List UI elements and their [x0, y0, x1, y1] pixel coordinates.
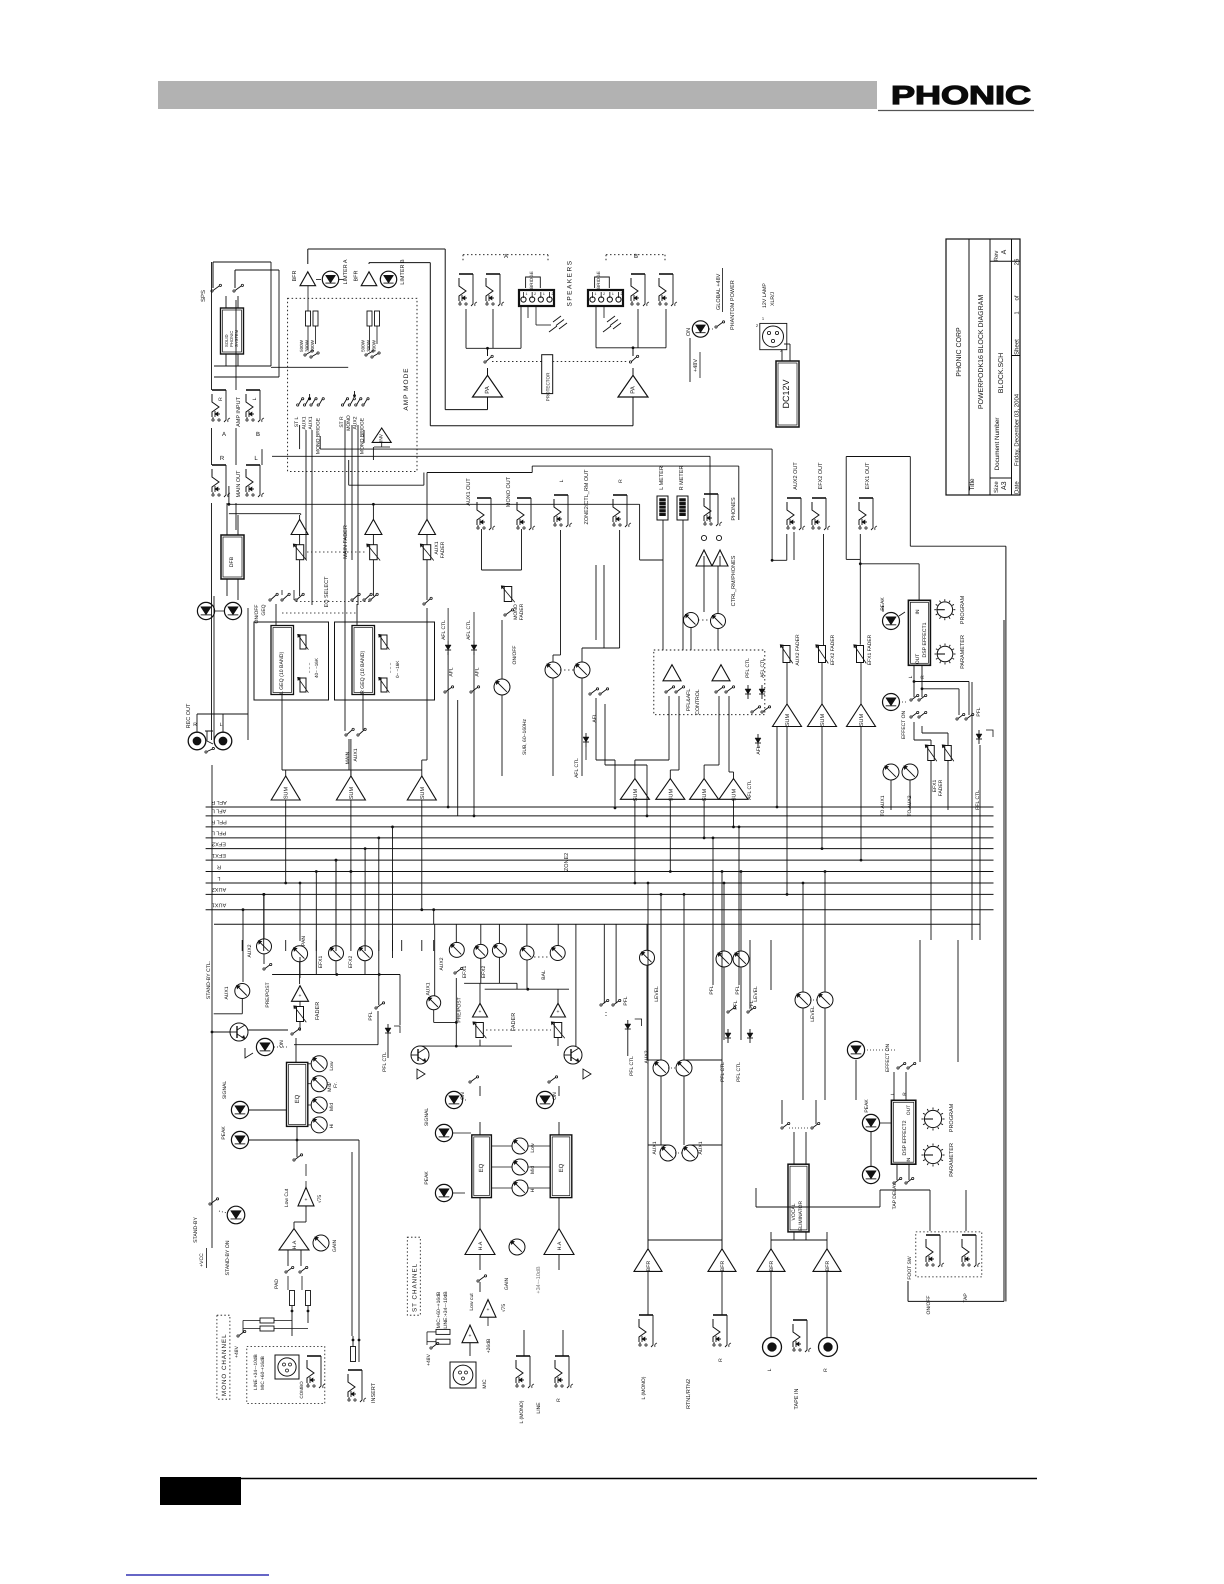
svg-text:PA: PA [484, 386, 491, 394]
svg-text:AMP INPUT: AMP INPUT [236, 396, 242, 426]
svg-text:EFFECT ON: EFFECT ON [885, 1043, 891, 1072]
svg-text:EQ SELECT: EQ SELECT [324, 576, 330, 608]
svg-text:L: L [217, 875, 220, 881]
svg-text:IN: IN [915, 609, 921, 614]
svg-text:SYSTEM: SYSTEM [234, 329, 239, 347]
svg-text:LEVEL: LEVEL [753, 986, 759, 1002]
svg-text:R: R [220, 455, 225, 462]
svg-text:PFL: PFL [368, 1011, 374, 1020]
svg-text:AFL: AFL [475, 667, 481, 676]
svg-text:PFL: PFL [733, 1000, 739, 1009]
svg-text:+48V: +48V [234, 1345, 240, 1357]
svg-text:MONO CHANNEL: MONO CHANNEL [221, 1333, 228, 1396]
svg-text:+VCC: +VCC [199, 1253, 205, 1267]
svg-text:L (MONO): L (MONO) [519, 1400, 525, 1423]
svg-text:EFX2: EFX2 [481, 966, 487, 979]
svg-text:√75: √75 [501, 1304, 507, 1313]
svg-text:ON/OFF: ON/OFF [926, 1296, 932, 1315]
svg-text:EFX1: EFX1 [212, 852, 226, 858]
svg-text:INV: INV [379, 433, 385, 442]
svg-text:GAIN: GAIN [504, 1278, 510, 1291]
svg-text:BRIDGE: BRIDGE [596, 271, 601, 289]
svg-text:H.A: H.A [557, 1241, 563, 1250]
svg-text:SUM: SUM [785, 713, 791, 726]
svg-text:SUM: SUM [349, 786, 355, 799]
svg-text:PFL CTL: PFL CTL [745, 658, 751, 678]
svg-text:BAL: BAL [541, 970, 547, 980]
svg-text:MAIN OUT: MAIN OUT [236, 470, 242, 498]
svg-text:1: 1 [543, 292, 545, 296]
svg-text:+: + [305, 1197, 308, 1203]
svg-text:PFL CTL: PFL CTL [736, 1062, 742, 1082]
svg-text:2: 2 [621, 292, 623, 296]
svg-text:R METER: R METER [679, 466, 685, 491]
svg-text:SUM: SUM [668, 788, 674, 801]
svg-text:SUM: SUM [633, 788, 639, 801]
svg-text:AUX2 OUT: AUX2 OUT [793, 462, 799, 490]
svg-text:AMP MODE: AMP MODE [403, 367, 410, 410]
svg-text:ON: ON [686, 328, 692, 336]
svg-text:MAIN: MAIN [345, 751, 351, 764]
svg-text:R: R [718, 1358, 724, 1362]
svg-text:ON/OFF: ON/OFF [512, 646, 518, 665]
svg-text:IN: IN [906, 1157, 912, 1162]
svg-text:1: 1 [595, 292, 597, 296]
svg-text:+26dB: +26dB [486, 1338, 492, 1353]
svg-text:AUX2: AUX2 [439, 957, 445, 970]
svg-text:A3: A3 [1001, 481, 1008, 490]
svg-text:AFL: AFL [756, 745, 762, 754]
svg-text:L: L [559, 479, 565, 482]
svg-text:MONO OUT: MONO OUT [506, 476, 512, 507]
svg-text:INSERT: INSERT [371, 1382, 377, 1403]
svg-text:PAD: PAD [274, 1279, 280, 1289]
svg-text:B: B [256, 431, 260, 438]
svg-text:AFL CTL: AFL CTL [760, 658, 766, 678]
svg-text:PFL L: PFL L [212, 830, 226, 836]
svg-text:L: L [890, 1092, 896, 1095]
svg-text:BFR: BFR [292, 270, 298, 281]
svg-text:√75: √75 [317, 1195, 323, 1204]
svg-text:A: A [222, 431, 226, 438]
svg-text:GAIN: GAIN [332, 1240, 338, 1253]
svg-text:ST R: ST R [339, 416, 345, 428]
svg-text:PEAK: PEAK [424, 1171, 430, 1185]
svg-text:BFR: BFR [646, 1261, 652, 1272]
svg-text:Hi: Hi [329, 1124, 335, 1129]
svg-text:ELIMINATOR: ELIMINATOR [798, 1201, 804, 1231]
svg-text:MIC:+60~+16dB: MIC:+60~+16dB [436, 1291, 442, 1328]
svg-text:SIGNAL: SIGNAL [424, 1108, 430, 1127]
svg-text:of: of [1014, 295, 1021, 300]
svg-text:AUX2 FADER: AUX2 FADER [795, 634, 801, 666]
svg-text:Rev: Rev [993, 251, 1000, 262]
svg-text:R: R [823, 1368, 829, 1372]
svg-text:500W: 500W [361, 339, 366, 352]
svg-text:L: L [252, 397, 258, 400]
svg-text:AUX1 OUT: AUX1 OUT [466, 478, 472, 506]
svg-text:TAP DELAY: TAP DELAY [892, 1182, 898, 1209]
svg-text:Date: Date [1014, 481, 1021, 494]
svg-text:L METER: L METER [659, 466, 665, 490]
svg-text:ST CHANNEL: ST CHANNEL [412, 1263, 419, 1312]
svg-text:DSP EFFECT1: DSP EFFECT1 [922, 622, 928, 657]
svg-text:XLR/J: XLR/J [770, 291, 776, 306]
svg-text:AFL CTL: AFL CTL [574, 758, 580, 778]
svg-text:2: 2 [603, 292, 605, 296]
svg-text:AFL CTL: AFL CTL [466, 620, 472, 640]
svg-text:TAPE IN: TAPE IN [794, 1388, 800, 1409]
svg-text:SPEAKERS: SPEAKERS [567, 259, 574, 306]
svg-text:LEVEL: LEVEL [654, 986, 660, 1002]
svg-text:300W: 300W [366, 339, 371, 352]
svg-text:R: R [556, 1398, 562, 1402]
svg-text:Mid: Mid [329, 1103, 335, 1111]
svg-text:PEAK: PEAK [221, 1126, 227, 1140]
svg-text:PFL CTL: PFL CTL [720, 1062, 726, 1082]
svg-text:AUX1: AUX1 [308, 416, 314, 429]
svg-text:Size: Size [993, 481, 1000, 493]
svg-text:AFL: AFL [449, 667, 455, 676]
svg-text:OUT: OUT [915, 654, 921, 665]
svg-text:H.A: H.A [478, 1241, 484, 1250]
svg-text:L GEQ (10 BAND): L GEQ (10 BAND) [279, 652, 285, 694]
svg-text:Low cut: Low cut [469, 1293, 475, 1311]
svg-text:L: L [908, 675, 914, 678]
svg-text:EFX1: EFX1 [318, 956, 324, 969]
svg-text:AUX1: AUX1 [302, 416, 308, 429]
svg-text:0~ ~16K: 0~ ~16K [395, 660, 400, 678]
svg-text:1: 1 [612, 292, 614, 296]
svg-text:GLOBAL +48V: GLOBAL +48V [716, 273, 722, 310]
svg-text:Friday, December 03, 2004: Friday, December 03, 2004 [1014, 393, 1021, 466]
svg-text:L: L [220, 722, 223, 728]
svg-text:LINE +34~-10dB: LINE +34~-10dB [253, 1354, 259, 1390]
svg-text:PARAMETER: PARAMETER [949, 1143, 955, 1177]
svg-text:BFR: BFR [720, 1261, 726, 1272]
svg-text:EFX2: EFX2 [212, 840, 226, 846]
svg-text:PHONES: PHONES [731, 497, 737, 521]
svg-text:LINE: LINE [536, 1402, 542, 1414]
svg-text:SUB, 60~160Hz: SUB, 60~160Hz [522, 719, 528, 755]
svg-text:PHONIC: PHONIC [891, 80, 1031, 110]
svg-text:EQ: EQ [478, 1163, 485, 1172]
svg-text:+: + [557, 1009, 560, 1015]
svg-text:AFL L: AFL L [212, 808, 226, 814]
svg-text:COMBO: COMBO [299, 1381, 304, 1399]
svg-text:FADER: FADER [315, 1002, 321, 1020]
svg-text:L: L [767, 1368, 773, 1371]
svg-text:R: R [920, 675, 926, 679]
svg-text:Low: Low [530, 1143, 536, 1153]
svg-text:PROTECTOR: PROTECTOR [546, 372, 551, 401]
svg-text:VOCAL: VOCAL [791, 1203, 797, 1220]
svg-text:AUX2: AUX2 [212, 886, 226, 892]
svg-text:MONO BRIDGE: MONO BRIDGE [360, 417, 366, 454]
svg-text:EFX2: EFX2 [348, 956, 354, 969]
svg-text:STAND-BY: STAND-BY [193, 1217, 199, 1243]
svg-text:DSP EFFECT2: DSP EFFECT2 [902, 1120, 908, 1155]
svg-text:CONTROL: CONTROL [695, 689, 701, 714]
svg-text:R: R [618, 479, 624, 483]
svg-text:STAND-BY CTL.: STAND-BY CTL. [206, 961, 212, 999]
svg-text:ON/OFF: ON/OFF [254, 605, 260, 624]
svg-text:H.A: H.A [292, 1240, 298, 1249]
svg-text:26: 26 [1014, 258, 1021, 265]
svg-text:A: A [1001, 249, 1008, 254]
svg-text:B: B [634, 253, 638, 260]
svg-text:500W: 500W [299, 339, 304, 352]
svg-text:+: + [469, 1333, 472, 1339]
svg-text:PA: PA [630, 386, 637, 394]
svg-text:CTRL_RM/PHONES: CTRL_RM/PHONES [731, 555, 737, 606]
svg-text:ST L: ST L [294, 417, 300, 428]
svg-text:PFL: PFL [735, 985, 741, 994]
svg-text:FADER: FADER [938, 779, 944, 796]
svg-text:FOOT SW: FOOT SW [907, 1256, 913, 1280]
svg-text:EFX2 OUT: EFX2 OUT [818, 462, 824, 490]
svg-text:FADER: FADER [511, 1013, 517, 1031]
svg-text:SUM: SUM [420, 786, 426, 799]
svg-text:PFL: PFL [976, 707, 982, 716]
svg-text:PFL R: PFL R [211, 819, 226, 825]
svg-text:PAN: PAN [301, 936, 307, 946]
svg-text:PHONIC CORP: PHONIC CORP [956, 327, 963, 377]
svg-text:Sheet: Sheet [1014, 339, 1021, 355]
svg-text:BLOCK.SCH: BLOCK.SCH [998, 353, 1005, 393]
svg-text:FADER: FADER [440, 541, 446, 558]
svg-text:LINE:+34~-10dB: LINE:+34~-10dB [443, 1291, 449, 1329]
svg-text:AUX1: AUX1 [212, 902, 226, 908]
svg-text:DC12V: DC12V [781, 379, 791, 408]
svg-text:1: 1 [526, 292, 528, 296]
svg-text:OUT: OUT [906, 1105, 912, 1115]
svg-text:R: R [902, 1092, 908, 1096]
svg-text:SPS: SPS [200, 290, 207, 302]
svg-text:AUX2: AUX2 [247, 944, 253, 957]
svg-text:SUM: SUM [820, 713, 826, 726]
svg-text:TO AUX1: TO AUX1 [880, 795, 886, 816]
svg-text:+34~-10dB: +34~-10dB [536, 1266, 542, 1294]
svg-text:PEAK: PEAK [864, 1099, 870, 1113]
svg-text:R: R [218, 397, 224, 401]
svg-text:RTN1/RTN2: RTN1/RTN2 [686, 1379, 692, 1409]
svg-text:+: + [487, 1307, 490, 1313]
svg-text:BRIDGE: BRIDGE [529, 271, 534, 289]
svg-text:EQ: EQ [294, 1094, 301, 1103]
svg-text:EQ: EQ [558, 1163, 565, 1172]
svg-text:BFR: BFR [825, 1261, 831, 1272]
svg-text:AUX1: AUX1 [353, 748, 359, 761]
svg-text:LIMTER A: LIMTER A [343, 259, 349, 284]
svg-text:PFL&AFL: PFL&AFL [686, 689, 692, 712]
svg-text:FADER: FADER [519, 603, 525, 620]
svg-text:MAIN FADER: MAIN FADER [343, 525, 349, 559]
svg-text:ZONE2: ZONE2 [564, 853, 570, 871]
svg-text:AFL R: AFL R [211, 799, 226, 805]
svg-text:Title: Title [969, 478, 976, 490]
svg-text:2: 2 [552, 292, 554, 296]
svg-text:MONO: MONO [346, 415, 352, 431]
svg-text:PFL CTL: PFL CTL [629, 1056, 635, 1076]
svg-text:+: + [299, 993, 302, 999]
svg-text:L (MONO): L (MONO) [641, 1376, 647, 1399]
svg-text:MIC: MIC [482, 1379, 488, 1389]
svg-text:BFR: BFR [769, 1261, 775, 1272]
svg-text:SUM: SUM [732, 788, 738, 801]
svg-text:Fr.: Fr. [333, 1082, 339, 1088]
svg-text:SUM: SUM [702, 788, 708, 801]
svg-text:12V LAMP: 12V LAMP [762, 283, 768, 308]
svg-text:PHANTOM POWER: PHANTOM POWER [730, 280, 736, 330]
svg-text:MIC +60-+16dB: MIC +60-+16dB [260, 1356, 266, 1390]
svg-text:300W: 300W [305, 339, 310, 352]
svg-text:REC OUT: REC OUT [186, 703, 192, 728]
svg-text:ON: ON [460, 1092, 466, 1100]
svg-text:BFR: BFR [354, 270, 360, 281]
svg-text:PRE/POST: PRE/POST [265, 982, 271, 1007]
svg-text:AUX1: AUX1 [698, 1141, 704, 1154]
svg-text:STAND-BY ON: STAND-BY ON [225, 1240, 231, 1275]
svg-text:DFB: DFB [229, 556, 235, 567]
svg-text:PRE/POST: PRE/POST [457, 997, 463, 1022]
svg-text:PROGRAM: PROGRAM [960, 595, 966, 624]
svg-text:LEVEL: LEVEL [810, 1006, 816, 1022]
svg-text:Document Number: Document Number [994, 418, 1001, 471]
svg-text:EFFECT ON: EFFECT ON [901, 710, 907, 739]
svg-text:SUM: SUM [859, 713, 865, 726]
svg-text:PARAMETER: PARAMETER [960, 635, 966, 669]
svg-text:GEQ: GEQ [261, 604, 267, 615]
svg-text:EFX2 FADER: EFX2 FADER [830, 634, 836, 665]
svg-text:Low: Low [329, 1061, 335, 1071]
svg-text:PROGRAM: PROGRAM [949, 1103, 955, 1132]
svg-text:AUX1: AUX1 [224, 986, 230, 999]
svg-text:+: + [479, 1009, 482, 1015]
svg-text:~ ~ ~: ~ ~ ~ [307, 662, 312, 673]
svg-text:AFL CTL: AFL CTL [441, 620, 447, 640]
svg-text:R GEQ (10 BAND): R GEQ (10 BAND) [360, 650, 366, 694]
svg-text:EFX1 OUT: EFX1 OUT [865, 462, 871, 490]
svg-text:ON: ON [552, 1092, 558, 1100]
svg-text:PFL: PFL [709, 985, 715, 994]
svg-text:Low Cut: Low Cut [284, 1188, 290, 1207]
svg-text:AUX1: AUX1 [426, 982, 432, 995]
svg-text:AFL: AFL [592, 713, 598, 722]
svg-text:+48V: +48V [693, 359, 699, 372]
svg-text:~ ~ ~: ~ ~ ~ [388, 662, 393, 673]
svg-text:+48V: +48V [426, 1353, 432, 1365]
svg-text:POWERPODK16 BLOCK DIAGRAM: POWERPODK16 BLOCK DIAGRAM [978, 295, 985, 410]
svg-text:SUM: SUM [284, 786, 290, 799]
svg-text:ZONE2/CTL_RM OUT: ZONE2/CTL_RM OUT [584, 469, 590, 525]
svg-text:PFL: PFL [623, 996, 629, 1005]
svg-text:ON: ON [279, 1040, 285, 1048]
svg-text:2: 2 [534, 292, 536, 296]
svg-text:SIGNAL: SIGNAL [222, 1081, 228, 1100]
svg-text:40~ ~16K: 40~ ~16K [314, 657, 319, 678]
svg-text:A: A [504, 253, 508, 260]
svg-text:EFX1 FADER: EFX1 FADER [867, 634, 873, 665]
svg-text:AUX1: AUX1 [652, 1141, 658, 1154]
svg-text:EFX1: EFX1 [462, 966, 468, 979]
svg-text:R: R [217, 863, 221, 869]
svg-text:AFL CTL: AFL CTL [747, 780, 753, 800]
svg-text:PFL CTL: PFL CTL [382, 1052, 388, 1072]
